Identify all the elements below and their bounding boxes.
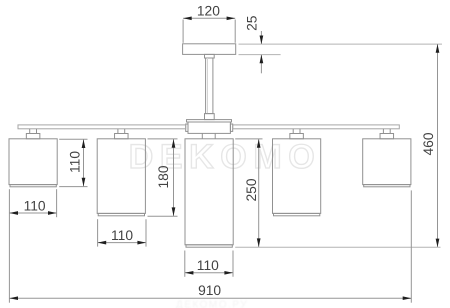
dimension 110 under S2 xyxy=(98,219,146,246)
lamp S2 shade xyxy=(97,139,145,216)
hub flange xyxy=(187,120,232,122)
watermark DEKOMO xyxy=(129,138,322,176)
dimension 250 (S3 height) xyxy=(235,139,262,247)
lamp S4 shade xyxy=(273,139,321,216)
svg-text:910: 910 xyxy=(198,283,221,298)
svg-text:180: 180 xyxy=(156,165,171,188)
dimension 120 xyxy=(183,18,235,43)
lamp S3 shade xyxy=(185,139,233,247)
lamp S4 stem xyxy=(290,129,304,139)
dimension 180 (S2 height) xyxy=(148,139,178,216)
svg-text:110: 110 xyxy=(24,198,46,213)
dimension 110 vertical (S1 height) xyxy=(59,139,87,186)
dimension 110 under S1 xyxy=(9,189,56,303)
hub left tab xyxy=(186,124,188,131)
lamp S1 stem xyxy=(26,129,39,139)
svg-text:110: 110 xyxy=(67,151,82,173)
hub right tab xyxy=(230,124,232,131)
lamp S2 stem xyxy=(115,129,129,139)
rail right part xyxy=(233,125,400,129)
svg-text:25: 25 xyxy=(245,15,260,31)
dimension 910 xyxy=(9,190,411,302)
lamp S5 shade xyxy=(363,139,411,187)
svg-text:120: 120 xyxy=(197,3,220,18)
watermark footer xyxy=(176,300,248,308)
stem upper step xyxy=(205,54,215,58)
dimension 460 xyxy=(437,44,439,247)
stem lower step xyxy=(205,114,215,120)
hub body xyxy=(188,122,230,133)
lamp S1 shade xyxy=(9,139,57,187)
dimension 25 xyxy=(239,44,443,55)
stem rod xyxy=(206,58,213,114)
svg-text:ДЕКОМО.РУ: ДЕКОМО.РУ xyxy=(176,300,248,308)
svg-text:110: 110 xyxy=(197,258,219,273)
svg-text:460: 460 xyxy=(421,132,436,155)
dimension 110 under S3 xyxy=(185,251,233,277)
svg-text:110: 110 xyxy=(111,228,133,243)
svg-text:250: 250 xyxy=(244,178,259,201)
rail left part xyxy=(18,125,186,129)
canopy xyxy=(183,44,236,55)
lamp S3 stem xyxy=(202,133,215,139)
lamp S5 stem xyxy=(380,129,394,139)
